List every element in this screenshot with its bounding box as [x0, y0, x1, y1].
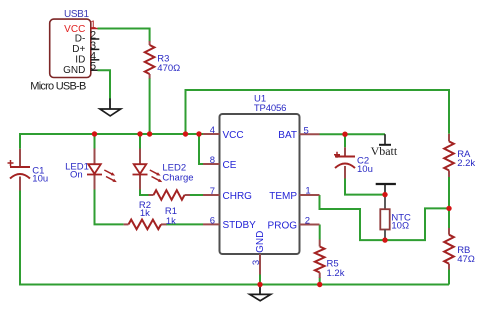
junction R5 on rail — [317, 282, 322, 287]
wire R5 bottom to rail — [319, 278, 321, 285]
wire RB bottom to bottom rail — [448, 269, 450, 284]
wire USB VCC to R3 top — [98, 29, 150, 42]
wire RA bottom to junction — [448, 177, 450, 229]
LED2 — [139, 149, 141, 190]
svg-text:VCC: VCC — [223, 130, 244, 141]
junction GND pin on rail — [257, 282, 262, 287]
svg-text:Vbatt: Vbatt — [371, 144, 398, 158]
wire LED1 bottom to R2 — [95, 189, 124, 224]
connector USB1 body — [50, 19, 91, 77]
ground symbol below USB — [109, 99, 111, 110]
svg-text:1k: 1k — [166, 216, 176, 227]
wire CE tie to VCC rail — [199, 134, 203, 164]
svg-text:1: 1 — [305, 186, 310, 197]
svg-text:PROG: PROG — [268, 220, 298, 231]
svg-text:4: 4 — [210, 125, 215, 136]
svg-text:TEMP: TEMP — [269, 191, 297, 202]
pin 4 stub VCC — [203, 133, 220, 135]
svg-text:STDBY: STDBY — [223, 220, 257, 231]
wire C2 bottom to gnd bar node — [345, 178, 384, 195]
wire LED1 top drop — [94, 134, 96, 149]
pin 5 stub — [91, 69, 98, 71]
pin 1 stub TEMP — [300, 194, 320, 196]
pin 3 stub — [91, 48, 100, 50]
resistor R3 — [149, 41, 151, 79]
svg-text:On: On — [70, 170, 83, 181]
wire GND pin to rail — [259, 275, 261, 285]
resistor R2 — [124, 223, 167, 225]
wire C1 bottom to bottom rail — [20, 190, 449, 285]
svg-text:CHRG: CHRG — [223, 191, 253, 202]
svg-text:BAT: BAT — [278, 130, 297, 141]
wire top link VCC rail to RA — [186, 90, 450, 134]
IC U1 TP4056 body — [220, 114, 300, 254]
svg-text:2.2k: 2.2k — [457, 158, 475, 169]
wire LED2 bottom to R1 — [140, 189, 149, 195]
junction NTC bottom — [382, 237, 387, 242]
wire R2 to STDBY pin — [166, 223, 203, 225]
svg-text:7: 7 — [210, 186, 215, 197]
capacitor C2 — [344, 147, 346, 178]
svg-text:TP4056: TP4056 — [254, 103, 287, 114]
LED1 — [94, 149, 96, 190]
pin 5 stub BAT — [300, 133, 320, 135]
svg-text:3: 3 — [251, 260, 262, 265]
thermistor NTC — [384, 195, 386, 210]
wire LED2 top drop — [139, 134, 141, 149]
resistor R5 — [319, 240, 321, 279]
svg-text:USB1: USB1 — [64, 9, 89, 20]
pin 2 stub PROG — [300, 224, 320, 226]
svg-text:10u: 10u — [357, 164, 373, 175]
wire R1 to CHRG pin — [190, 194, 204, 196]
svg-text:47Ω: 47Ω — [457, 254, 475, 265]
pin 3 stub GND — [259, 254, 261, 275]
wire PROG to R5 — [319, 225, 321, 240]
wire VCC rail — [20, 133, 203, 135]
svg-text:D+: D+ — [72, 44, 85, 55]
pin 4 stub — [91, 59, 100, 61]
wire R3 bottom to VCC rail — [149, 78, 151, 134]
svg-text:470Ω: 470Ω — [157, 63, 180, 74]
svg-text:GND: GND — [63, 65, 85, 76]
pin 2 stub — [91, 38, 100, 40]
ground bar symbol above NTC — [376, 183, 396, 185]
wire TEMP to NTC bottom and divider — [320, 195, 450, 240]
svg-text:1k: 1k — [140, 208, 150, 219]
pin 8 stub CE — [203, 163, 220, 165]
junction dots on VCC rail — [92, 131, 202, 136]
junction gnd bar node — [382, 192, 387, 197]
capacitor C1 — [19, 149, 21, 191]
svg-text:ID: ID — [75, 54, 85, 65]
junction divider node — [446, 206, 451, 211]
junction C2 tap — [342, 132, 347, 137]
pin 1 stub (red) — [91, 28, 98, 30]
resistor R1 — [149, 194, 191, 196]
pin 7 stub CHRG — [203, 194, 220, 196]
svg-text:5: 5 — [304, 126, 309, 137]
svg-text:10u: 10u — [32, 173, 48, 184]
svg-text:Micro USB-B: Micro USB-B — [30, 81, 86, 93]
wire left branch through C1 to ground rail — [19, 133, 21, 149]
wire BAT to Vbatt and C2 — [320, 133, 386, 135]
svg-text:8: 8 — [210, 155, 215, 166]
pin 6 stub STDBY — [203, 223, 220, 225]
resistor RA — [448, 134, 450, 177]
svg-text:2: 2 — [305, 216, 310, 227]
svg-text:GND: GND — [255, 231, 266, 253]
power flag Vbatt — [384, 134, 386, 145]
svg-text:6: 6 — [210, 216, 215, 227]
svg-text:Charge: Charge — [162, 173, 193, 184]
wire C2 top drop — [344, 134, 346, 147]
svg-text:1.2k: 1.2k — [327, 268, 345, 279]
wire USB GND to ground symbol — [98, 70, 111, 99]
svg-text:10Ω: 10Ω — [391, 221, 409, 232]
svg-text:CE: CE — [223, 160, 237, 171]
resistor RB — [448, 228, 450, 270]
ground symbol below U1 — [259, 285, 261, 295]
svg-text:D-: D- — [75, 34, 86, 45]
